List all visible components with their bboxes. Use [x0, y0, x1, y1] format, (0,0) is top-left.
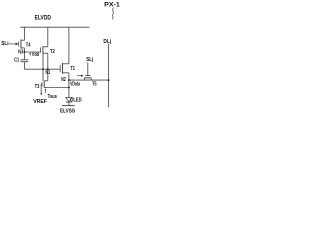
Vdd pointer arrow	[29, 52, 31, 55]
wire T3 to OLED node	[48, 87, 69, 89]
transistor T2	[41, 46, 48, 54]
svg-text:N1: N1	[46, 70, 51, 76]
node N3 junction	[23, 51, 25, 53]
svg-text:DLj: DLj	[103, 39, 111, 45]
svg-text:T2: T2	[50, 49, 55, 55]
svg-text:SLj: SLj	[86, 57, 93, 63]
wire rail to T1	[68, 27, 70, 64]
VREF terminal arrow	[40, 93, 42, 95]
wire N1 tap down	[42, 69, 44, 81]
svg-text:N2: N2	[61, 77, 66, 83]
wire N2 down to OLED	[68, 80, 70, 98]
wire T4 to node N3	[23, 48, 25, 52]
node N1 junction right	[47, 68, 49, 70]
VData flow arrow	[77, 75, 83, 77]
svg-text:C1: C1	[14, 58, 19, 64]
wire T1 source to N2	[68, 73, 70, 80]
svg-text:VREF: VREF	[33, 99, 47, 105]
wire rail to T2	[47, 27, 49, 47]
svg-text:N3: N3	[18, 50, 23, 56]
svg-text:PX-1: PX-1	[104, 2, 120, 9]
DLj junction	[108, 79, 110, 81]
wire T2 drain arm down to N1	[47, 53, 49, 69]
svg-text:T4: T4	[26, 42, 31, 48]
svg-text:ELVDD: ELVDD	[35, 15, 52, 22]
wire node N1 horizontal	[24, 68, 60, 70]
Tsus pointer arrow	[45, 88, 47, 93]
svg-text:OLED: OLED	[70, 97, 82, 103]
transistor T4	[19, 39, 25, 48]
wire N3 to T2 gate	[24, 51, 40, 53]
PX-1 pointer squiggle	[112, 8, 113, 20]
wire rail to T4	[23, 27, 25, 40]
wire T2 source to N1	[42, 54, 44, 69]
ELVDD rail	[20, 26, 89, 28]
DLj data line	[108, 44, 110, 107]
OLED node junction	[68, 87, 70, 89]
node N1 junction left	[42, 68, 44, 70]
capacitor C1	[21, 52, 29, 69]
svg-text:ELVSS: ELVSS	[60, 108, 75, 114]
svg-text:T5: T5	[92, 81, 97, 87]
node N2 junction	[68, 79, 70, 81]
OLED diode	[66, 98, 73, 106]
transistor T3	[41, 81, 48, 88]
svg-text:Vdd: Vdd	[32, 52, 39, 58]
svg-text:Tsus: Tsus	[48, 94, 58, 100]
wire N2 to DLj	[69, 79, 109, 81]
wire T3 gate to VREF	[40, 84, 42, 93]
wire N1 down to T3	[47, 69, 49, 81]
ELVSS terminal	[62, 105, 75, 107]
transistor T1	[60, 63, 69, 74]
svg-text:T1: T1	[70, 66, 75, 72]
svg-text:VData: VData	[70, 81, 80, 87]
svg-text:SLi: SLi	[1, 41, 9, 47]
SLi arrow	[9, 43, 18, 46]
svg-text:T3: T3	[35, 84, 40, 90]
transistor T5	[84, 62, 92, 80]
